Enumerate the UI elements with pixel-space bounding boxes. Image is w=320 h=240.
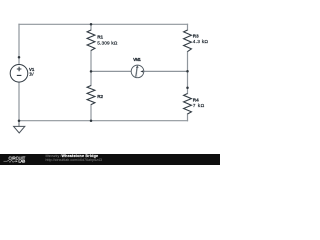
svg-text:5.309 kΩ: 5.309 kΩ xyxy=(97,40,118,46)
svg-text:7 kΩ: 7 kΩ xyxy=(193,103,205,109)
svg-text:R4: R4 xyxy=(193,98,199,103)
svg-text:4.3 kΩ: 4.3 kΩ xyxy=(193,39,209,45)
svg-text:R1: R1 xyxy=(97,34,103,39)
svg-text:VM1: VM1 xyxy=(133,57,141,62)
svg-text:http://circuitlab.com/c6d76ahp: http://circuitlab.com/c6d76ahp6z43 xyxy=(46,158,103,162)
svg-text:R2: R2 xyxy=(97,94,103,99)
svg-text:LAB: LAB xyxy=(18,160,25,164)
svg-text:R3: R3 xyxy=(193,34,199,39)
